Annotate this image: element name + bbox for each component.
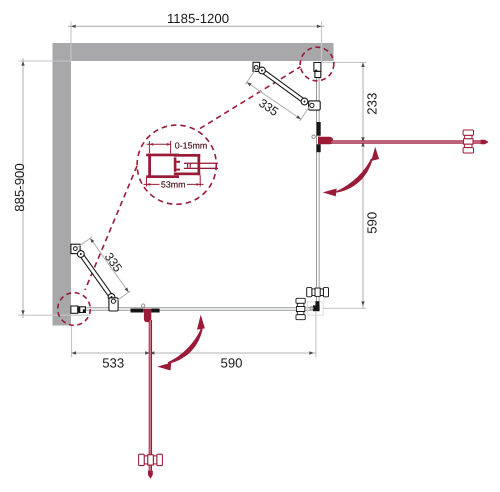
support bar top wall bracket bbox=[253, 62, 260, 71]
extension line bottom-left bbox=[71, 326, 73, 358]
svg-text:233: 233 bbox=[364, 93, 379, 115]
corner piece bbox=[313, 305, 320, 311]
svg-text:335: 335 bbox=[102, 250, 125, 275]
svg-text:53mm: 53mm bbox=[161, 179, 186, 189]
support bar bottom glass clamp bbox=[109, 298, 118, 311]
adjuster right panel bbox=[315, 71, 321, 77]
detail dim 53mm bbox=[144, 175, 204, 186]
wall top bbox=[53, 43, 334, 61]
support bar top rod bbox=[262, 71, 305, 102]
door pivot bottom (red) bbox=[144, 309, 151, 323]
dimension line right 233+590 bbox=[362, 62, 364, 309]
svg-text:885-900: 885-900 bbox=[12, 163, 27, 211]
svg-text:1185-1200: 1185-1200 bbox=[167, 11, 229, 26]
door bottom tip bbox=[148, 471, 153, 479]
svg-text:590: 590 bbox=[220, 356, 242, 371]
glass right panel bbox=[316, 78, 318, 307]
wall profile right panel bbox=[314, 63, 321, 72]
svg-text:590: 590 bbox=[364, 212, 379, 234]
detail inner profile bbox=[174, 154, 200, 157]
door pivot right (red) bbox=[318, 137, 333, 145]
extension line left-bottom bbox=[19, 314, 91, 316]
detail leader line to bottom circle bbox=[85, 166, 137, 290]
hinge bottom door bbox=[131, 309, 144, 313]
detail glass lines bbox=[184, 163, 218, 164]
door right tip bbox=[481, 140, 489, 145]
svg-text:0-15mm: 0-15mm bbox=[175, 141, 207, 151]
support bar bottom rod bbox=[81, 254, 112, 297]
dimension line left 885-900 bbox=[22, 58, 24, 318]
extension line top-left bbox=[70, 22, 72, 62]
support bar top glass clamp bbox=[309, 101, 321, 110]
extension line left-top bbox=[19, 60, 72, 62]
svg-text:335: 335 bbox=[256, 96, 281, 119]
door bottom open bbox=[149, 320, 150, 471]
detail wall profile outer bbox=[146, 154, 218, 178]
support bar bottom wall bracket bbox=[71, 244, 80, 253]
extension line top-right bbox=[321, 22, 323, 63]
corner bracket outline bbox=[308, 302, 324, 315]
dimension line bottom 533+590 bbox=[72, 352, 316, 354]
dimension 335 top bbox=[247, 82, 301, 119]
extension line right-bottom bbox=[323, 307, 367, 309]
wall profile bottom panel bbox=[71, 306, 78, 313]
detail circle top bbox=[300, 47, 334, 81]
dimension 335 bottom bbox=[90, 238, 128, 292]
door bottom knob bbox=[139, 454, 163, 465]
detail dim 0-15mm bbox=[147, 141, 171, 154]
hinge right door bbox=[317, 122, 321, 136]
wall left bbox=[53, 43, 72, 326]
svg-text:533: 533 bbox=[102, 356, 124, 371]
extension line bottom-right bbox=[315, 312, 317, 358]
door right open bbox=[331, 140, 481, 141]
knob bottom door closed bbox=[296, 298, 305, 319]
adjuster bottom panel bbox=[80, 307, 86, 313]
swing arrow right door bbox=[336, 159, 373, 193]
extension line right-top bbox=[322, 61, 367, 63]
detail circle bottom-left bbox=[58, 293, 91, 326]
detail leader line to top circle bbox=[200, 67, 301, 129]
swing arrow bottom door bbox=[168, 328, 203, 364]
knob right door closed bbox=[307, 288, 329, 297]
glass bottom panel bbox=[85, 307, 314, 309]
dimension line top 1185-1200 bbox=[68, 25, 325, 27]
detail circle big bbox=[137, 125, 216, 204]
